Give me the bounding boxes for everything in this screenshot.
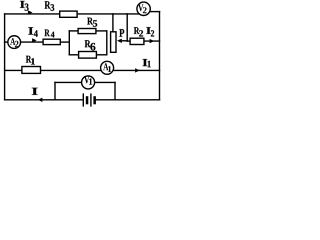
label R2 <box>134 27 143 36</box>
wire R5 branch right <box>96 30 107 32</box>
wire wiper to junction <box>121 40 128 42</box>
label I3 <box>20 1 29 11</box>
label R3 <box>45 1 55 11</box>
label R6 <box>85 40 96 50</box>
battery long plate 2 <box>90 93 92 106</box>
resistor R4 <box>43 39 60 44</box>
arrow I2 (right) <box>150 39 155 43</box>
label I4 <box>28 27 37 36</box>
wire left border to R1 <box>5 69 22 71</box>
resistor R2 <box>130 38 144 44</box>
wire V2 right stub <box>150 11 159 13</box>
wire R6 branch left <box>69 54 78 56</box>
label I2 <box>146 27 154 36</box>
wire A2 to R4 <box>20 41 43 43</box>
label V2 (inside meter) <box>138 4 147 13</box>
wire V1 branch right horizontal <box>95 81 116 83</box>
label V1 (inside meter) <box>84 76 92 85</box>
wire left border <box>4 14 6 100</box>
ammeter A2 body <box>8 36 21 49</box>
label P <box>119 29 124 37</box>
label R4 <box>45 30 55 38</box>
label A2 (inside meter) <box>10 38 18 47</box>
wire junction to R2 <box>127 40 130 42</box>
wire right border <box>159 12 161 100</box>
label I1 <box>143 59 151 67</box>
wire parallel block left vertical <box>68 31 70 55</box>
label I (battery current) <box>32 88 38 95</box>
resistor R1 <box>22 67 41 74</box>
wire R6 branch right <box>96 54 106 56</box>
wire V1 branch right vertical <box>114 82 116 99</box>
potentiometer P wiper arrow (left) <box>117 39 122 43</box>
wire bottom border left of battery <box>5 99 82 101</box>
wire junction vertical from top border <box>126 14 128 41</box>
wire A1 to right border <box>114 69 160 71</box>
arrow I4 (right) <box>32 38 37 42</box>
battery short thick plate 1 <box>86 96 89 104</box>
resistor R6 <box>79 52 97 59</box>
ammeter A1 body <box>101 61 114 74</box>
wire top border <box>5 13 139 15</box>
wire R5 branch left <box>69 30 78 32</box>
arrow I (left) <box>38 98 43 102</box>
resistor R3 <box>60 11 77 17</box>
wire bottom border right of battery <box>96 99 159 101</box>
voltmeter V1 body <box>82 76 95 89</box>
arrow I1 (right) <box>135 68 140 72</box>
battery long plate 1 <box>82 93 84 106</box>
wire V1 branch left vertical <box>54 82 56 99</box>
wire R4 to parallel block <box>61 41 70 43</box>
label R1 <box>26 56 35 65</box>
resistor R5 <box>78 29 96 34</box>
label A1 (inside meter) <box>103 63 111 72</box>
potentiometer P body <box>111 32 116 53</box>
wire V1 branch left horizontal <box>55 81 82 83</box>
wire R2 to right border <box>144 40 160 42</box>
wire parallel block right vertical <box>106 31 108 55</box>
label R5 <box>87 18 97 27</box>
wire potentiometer top lead <box>112 14 114 32</box>
wire R1 to A1 <box>41 69 101 71</box>
battery short thick plate 2 <box>93 96 96 104</box>
voltmeter V2 body <box>137 2 150 15</box>
wire left border to A2 <box>5 41 8 43</box>
arrow I3 (right) <box>28 10 33 14</box>
